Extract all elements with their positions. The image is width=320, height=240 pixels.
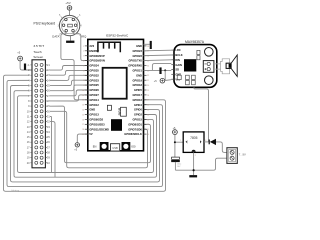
svg-text:1: 1 bbox=[28, 63, 30, 67]
svg-text:DATA: DATA bbox=[52, 34, 59, 38]
svg-text:21: 21 bbox=[147, 129, 149, 131]
svg-text:28: 28 bbox=[147, 95, 149, 97]
svg-text:ESP32-DevKitC: ESP32-DevKitC bbox=[106, 34, 129, 38]
svg-text:6: 6 bbox=[83, 70, 84, 72]
svg-text:13: 13 bbox=[27, 125, 30, 129]
svg-text:EN: EN bbox=[93, 145, 97, 149]
svg-text:19: 19 bbox=[82, 134, 84, 136]
wire GPIO21 to SD bbox=[144, 69, 172, 71]
connector J3 battery terminal bbox=[227, 148, 237, 164]
svg-text:GPIO2: GPIO2 bbox=[134, 113, 142, 117]
wire diode to battery + bbox=[216, 142, 227, 153]
passives (MAX98357A) bbox=[177, 50, 200, 84]
wire ground bus bbox=[175, 152, 227, 175]
svg-text:12: 12 bbox=[82, 100, 84, 102]
svg-text:1: 1 bbox=[83, 46, 84, 48]
svg-text:24: 24 bbox=[47, 78, 50, 82]
IC (ESP32 usb-uart) bbox=[119, 107, 126, 116]
wire bus F bbox=[50, 106, 151, 163]
capacitor C2 (SD line) bbox=[159, 67, 161, 74]
wire TFT pin 23 to ESP32 bbox=[50, 70, 88, 75]
svg-text:30: 30 bbox=[47, 109, 50, 113]
svg-text:15: 15 bbox=[82, 114, 84, 116]
svg-text:GPIO8/SD1: GPIO8/SD1 bbox=[128, 122, 142, 126]
svg-text:GPIO12: GPIO12 bbox=[89, 103, 99, 107]
wire GND stub bbox=[144, 43, 150, 45]
junction +5/7805 bbox=[174, 141, 176, 143]
svg-text:Touch: Touch bbox=[33, 50, 42, 54]
power +5V (PS/2) bbox=[65, 1, 71, 10]
wire bus A bbox=[4, 75, 166, 191]
ground symbol bbox=[189, 175, 197, 177]
svg-text:9: 9 bbox=[28, 104, 30, 108]
wire IRQ PS/2 to ESP32 bbox=[73, 32, 88, 61]
wire bus H bbox=[50, 116, 52, 172]
capacitor C1 electrolytic bbox=[171, 157, 181, 170]
svg-text:Screen: Screen bbox=[33, 55, 43, 59]
svg-text:GPIO9/SD2: GPIO9/SD2 bbox=[89, 118, 103, 122]
wire +5 to TFT pin 2 bbox=[20, 61, 32, 70]
USB connector (ESP32) bbox=[111, 144, 120, 151]
svg-text:1: 1 bbox=[180, 140, 181, 142]
svg-text:3.5 TFT: 3.5 TFT bbox=[33, 44, 44, 48]
svg-text:28: 28 bbox=[47, 99, 50, 103]
svg-text:GAIN: GAIN bbox=[175, 63, 182, 67]
regulator U3 7805 bbox=[180, 132, 206, 157]
svg-text:GPIO11/SDCMD: GPIO11/SDCMD bbox=[89, 127, 109, 131]
wire bus E bbox=[18, 96, 154, 173]
svg-text:31: 31 bbox=[47, 115, 50, 119]
svg-text:11: 11 bbox=[27, 115, 30, 119]
svg-text:29: 29 bbox=[147, 90, 149, 92]
svg-text:fritzing: fritzing bbox=[12, 188, 20, 192]
wire bus D bbox=[14, 91, 157, 178]
svg-text:20: 20 bbox=[27, 161, 30, 165]
svg-text:GPIO17: GPIO17 bbox=[133, 93, 143, 97]
connector J1 PS/2 keyboard mini-DIN bbox=[58, 14, 83, 37]
svg-text:34: 34 bbox=[47, 130, 50, 134]
svg-text:26: 26 bbox=[47, 89, 50, 93]
power +5 (regulator out) bbox=[173, 127, 178, 135]
svg-text:3V3: 3V3 bbox=[89, 44, 94, 48]
button EN bbox=[93, 142, 109, 151]
wire TFT pin 28 to ESP32 bbox=[50, 95, 88, 101]
svg-text:8: 8 bbox=[28, 99, 30, 103]
svg-text:17: 17 bbox=[27, 145, 30, 149]
svg-text:7...9V: 7...9V bbox=[239, 153, 246, 157]
RF shield (ESP32 module can) bbox=[103, 68, 127, 99]
svg-text:GPIO39/SVN: GPIO39/SVN bbox=[89, 59, 105, 63]
svg-text:GPIO18: GPIO18 bbox=[133, 83, 143, 87]
svg-text:38: 38 bbox=[47, 151, 50, 155]
wire TFT pin 27 to ESP32 bbox=[50, 90, 88, 96]
svg-text:7805: 7805 bbox=[190, 136, 198, 140]
svg-text:GPIO16: GPIO16 bbox=[133, 98, 143, 102]
svg-text:37: 37 bbox=[47, 145, 50, 149]
svg-text:24: 24 bbox=[147, 114, 149, 116]
svg-text:30: 30 bbox=[147, 85, 149, 87]
module U1 ESP32-DevKitC board bbox=[88, 39, 144, 150]
svg-text:16: 16 bbox=[82, 119, 84, 121]
svg-text:4: 4 bbox=[83, 61, 84, 63]
svg-text:18: 18 bbox=[27, 151, 30, 155]
svg-text:+5: +5 bbox=[74, 149, 77, 152]
svg-text:EN/RST: EN/RST bbox=[89, 49, 99, 53]
svg-text:GPIO5: GPIO5 bbox=[134, 88, 142, 92]
wire MAX98357A to diode node bbox=[194, 87, 209, 142]
svg-text:10: 10 bbox=[27, 109, 30, 113]
wire bus C bbox=[11, 86, 160, 182]
svg-text:IRQ: IRQ bbox=[81, 34, 87, 38]
svg-text:35: 35 bbox=[47, 135, 50, 139]
antenna meander (ESP32) bbox=[98, 42, 120, 52]
wire +5 to ESP32 5V bbox=[77, 134, 88, 143]
svg-text:12: 12 bbox=[27, 120, 30, 124]
svg-text:11: 11 bbox=[82, 95, 84, 97]
connector J2 40-pin TFT header bbox=[27, 60, 51, 168]
svg-text:GPIO14: GPIO14 bbox=[89, 98, 99, 102]
svg-text:21: 21 bbox=[47, 63, 50, 67]
svg-text:GPIO6/SDCLK: GPIO6/SDCLK bbox=[124, 132, 142, 136]
svg-text:GND: GND bbox=[136, 73, 142, 77]
wire GPIO23 to LRC bbox=[144, 49, 172, 52]
svg-text:SD: SD bbox=[175, 68, 179, 72]
svg-text:40: 40 bbox=[47, 161, 50, 165]
wire DATA PS/2 to ESP32 bbox=[61, 32, 88, 100]
svg-text:USB: USB bbox=[112, 146, 118, 150]
output connector (MAX98357A) bbox=[203, 61, 214, 73]
power +5 (ESP32 5V) bbox=[74, 143, 79, 152]
svg-text:GND: GND bbox=[136, 44, 142, 48]
wire +5 to VIN bbox=[165, 79, 172, 82]
svg-text:25: 25 bbox=[47, 84, 50, 88]
svg-text:23: 23 bbox=[147, 119, 149, 121]
wire 7805 OUT stub bbox=[204, 141, 209, 143]
svg-text:23: 23 bbox=[47, 73, 50, 77]
svg-text:+5: +5 bbox=[17, 50, 21, 54]
svg-text:22: 22 bbox=[47, 68, 50, 72]
wire TFT pin 22 to ESP32 bbox=[50, 66, 88, 71]
svg-text:GPIO10/SD3: GPIO10/SD3 bbox=[89, 122, 105, 126]
capacitor C5 (TFT supply) bbox=[24, 64, 28, 70]
svg-text:GPIO13: GPIO13 bbox=[89, 113, 99, 117]
svg-text:GPIO33: GPIO33 bbox=[89, 78, 99, 82]
ESP32 pin rows bbox=[82, 44, 149, 136]
module U2 MAX98357A board bbox=[171, 45, 217, 88]
svg-text:15: 15 bbox=[27, 135, 30, 139]
svg-text:GPIO26: GPIO26 bbox=[89, 88, 99, 92]
junction ground bbox=[193, 169, 195, 171]
wire +5V to PS/2 bbox=[69, 10, 71, 15]
wire bus B bbox=[7, 80, 163, 186]
svg-text:27: 27 bbox=[47, 94, 50, 98]
svg-text:18: 18 bbox=[82, 129, 84, 131]
wire bus G bbox=[50, 111, 148, 168]
svg-text:GPIO0: GPIO0 bbox=[134, 108, 142, 112]
svg-text:22: 22 bbox=[147, 124, 149, 126]
svg-text:2: 2 bbox=[83, 51, 84, 53]
svg-text:31: 31 bbox=[147, 80, 149, 82]
svg-text:PS/2 keyboard: PS/2 keyboard bbox=[34, 21, 56, 25]
svg-text:20: 20 bbox=[147, 134, 149, 136]
svg-text:GPIO19: GPIO19 bbox=[133, 78, 143, 82]
svg-text:GPIO25: GPIO25 bbox=[89, 83, 99, 87]
svg-text:27: 27 bbox=[147, 100, 149, 102]
svg-text:GPIO21: GPIO21 bbox=[133, 69, 143, 73]
wire +5 node bbox=[175, 135, 183, 158]
svg-text:14: 14 bbox=[27, 130, 30, 134]
svg-text:GND: GND bbox=[89, 108, 95, 112]
power +5 (TFT) bbox=[17, 50, 22, 60]
wire GAIN strap bbox=[152, 64, 171, 71]
diode D1 bbox=[209, 139, 216, 145]
chip (MAX98357A) bbox=[184, 59, 196, 71]
svg-text:IO0: IO0 bbox=[131, 145, 136, 149]
svg-text:7: 7 bbox=[83, 75, 84, 77]
svg-text:9: 9 bbox=[83, 85, 84, 87]
svg-text:BCLK: BCLK bbox=[175, 53, 182, 57]
svg-text:DIN: DIN bbox=[175, 58, 180, 62]
wire TFT pin 24 to ESP32 bbox=[50, 75, 88, 80]
svg-text:GPIO34: GPIO34 bbox=[89, 64, 99, 68]
svg-text:GPIO4: GPIO4 bbox=[134, 103, 142, 107]
svg-text:MAX98357A: MAX98357A bbox=[185, 40, 205, 44]
svg-text:GPIO22: GPIO22 bbox=[133, 54, 143, 58]
capacitor C4 (PS/2 shield bar) bbox=[66, 36, 74, 43]
svg-text:GPIO1/TX0: GPIO1/TX0 bbox=[128, 59, 142, 63]
svg-text:10: 10 bbox=[82, 90, 84, 92]
svg-text:GPIO3/RX0: GPIO3/RX0 bbox=[128, 64, 142, 68]
svg-text:38: 38 bbox=[147, 46, 149, 48]
svg-text:25: 25 bbox=[147, 110, 149, 112]
svg-text:GPIO35: GPIO35 bbox=[89, 69, 99, 73]
svg-text:2: 2 bbox=[195, 155, 196, 157]
svg-text:39: 39 bbox=[47, 156, 50, 160]
svg-text:GPIO15: GPIO15 bbox=[133, 118, 143, 122]
wire GPIO22 to BCLK bbox=[144, 54, 172, 57]
svg-text:3: 3 bbox=[83, 56, 84, 58]
svg-text:19: 19 bbox=[27, 156, 30, 160]
svg-text:13: 13 bbox=[82, 105, 84, 107]
svg-text:36: 36 bbox=[47, 140, 50, 144]
svg-text:5V: 5V bbox=[89, 132, 92, 136]
svg-text:LRC: LRC bbox=[175, 48, 180, 52]
svg-text:4: 4 bbox=[80, 25, 82, 28]
svg-text:34: 34 bbox=[147, 65, 149, 67]
svg-text:5: 5 bbox=[83, 65, 84, 67]
svg-text:GPIO36/SVP: GPIO36/SVP bbox=[89, 54, 105, 58]
junction SD/VIN bbox=[164, 69, 166, 80]
small part (ESP32) bbox=[107, 105, 111, 110]
wire TFT pin 25 to ESP32 bbox=[50, 80, 88, 85]
svg-text:GPIO32: GPIO32 bbox=[89, 73, 99, 77]
svg-text:32: 32 bbox=[47, 120, 50, 124]
svg-text:26: 26 bbox=[147, 105, 149, 107]
speaker plug bbox=[221, 59, 230, 74]
svg-text:32: 32 bbox=[147, 75, 149, 77]
wire TFT pin 26 to ESP32 bbox=[50, 85, 88, 91]
svg-text:29: 29 bbox=[47, 104, 50, 108]
svg-text:GPIO23: GPIO23 bbox=[133, 49, 143, 53]
svg-text:17: 17 bbox=[82, 124, 84, 126]
power +5 (MAX98357A VIN) bbox=[154, 78, 165, 83]
button BOOT IO0 bbox=[122, 142, 137, 151]
svg-text:14: 14 bbox=[82, 110, 84, 112]
svg-text:GPIO7/SD0: GPIO7/SD0 bbox=[128, 127, 142, 131]
svg-text:8: 8 bbox=[83, 80, 84, 82]
capacitor C3 (GND bar) bbox=[150, 41, 152, 49]
speaker LS1 bbox=[226, 55, 237, 76]
svg-text:33: 33 bbox=[47, 125, 50, 129]
wire bus I bbox=[50, 122, 55, 178]
chip (ESP32 flash) bbox=[111, 119, 122, 131]
svg-text:16V: 16V bbox=[177, 166, 181, 168]
wire TX0 to DIN bbox=[144, 59, 172, 62]
svg-text:6: 6 bbox=[79, 14, 81, 17]
wire speaker leads bbox=[214, 64, 221, 69]
svg-text:+5V: +5V bbox=[65, 1, 70, 5]
svg-text:+5: +5 bbox=[154, 80, 157, 83]
svg-text:GPIO27: GPIO27 bbox=[89, 93, 99, 97]
svg-text:16: 16 bbox=[27, 140, 30, 144]
